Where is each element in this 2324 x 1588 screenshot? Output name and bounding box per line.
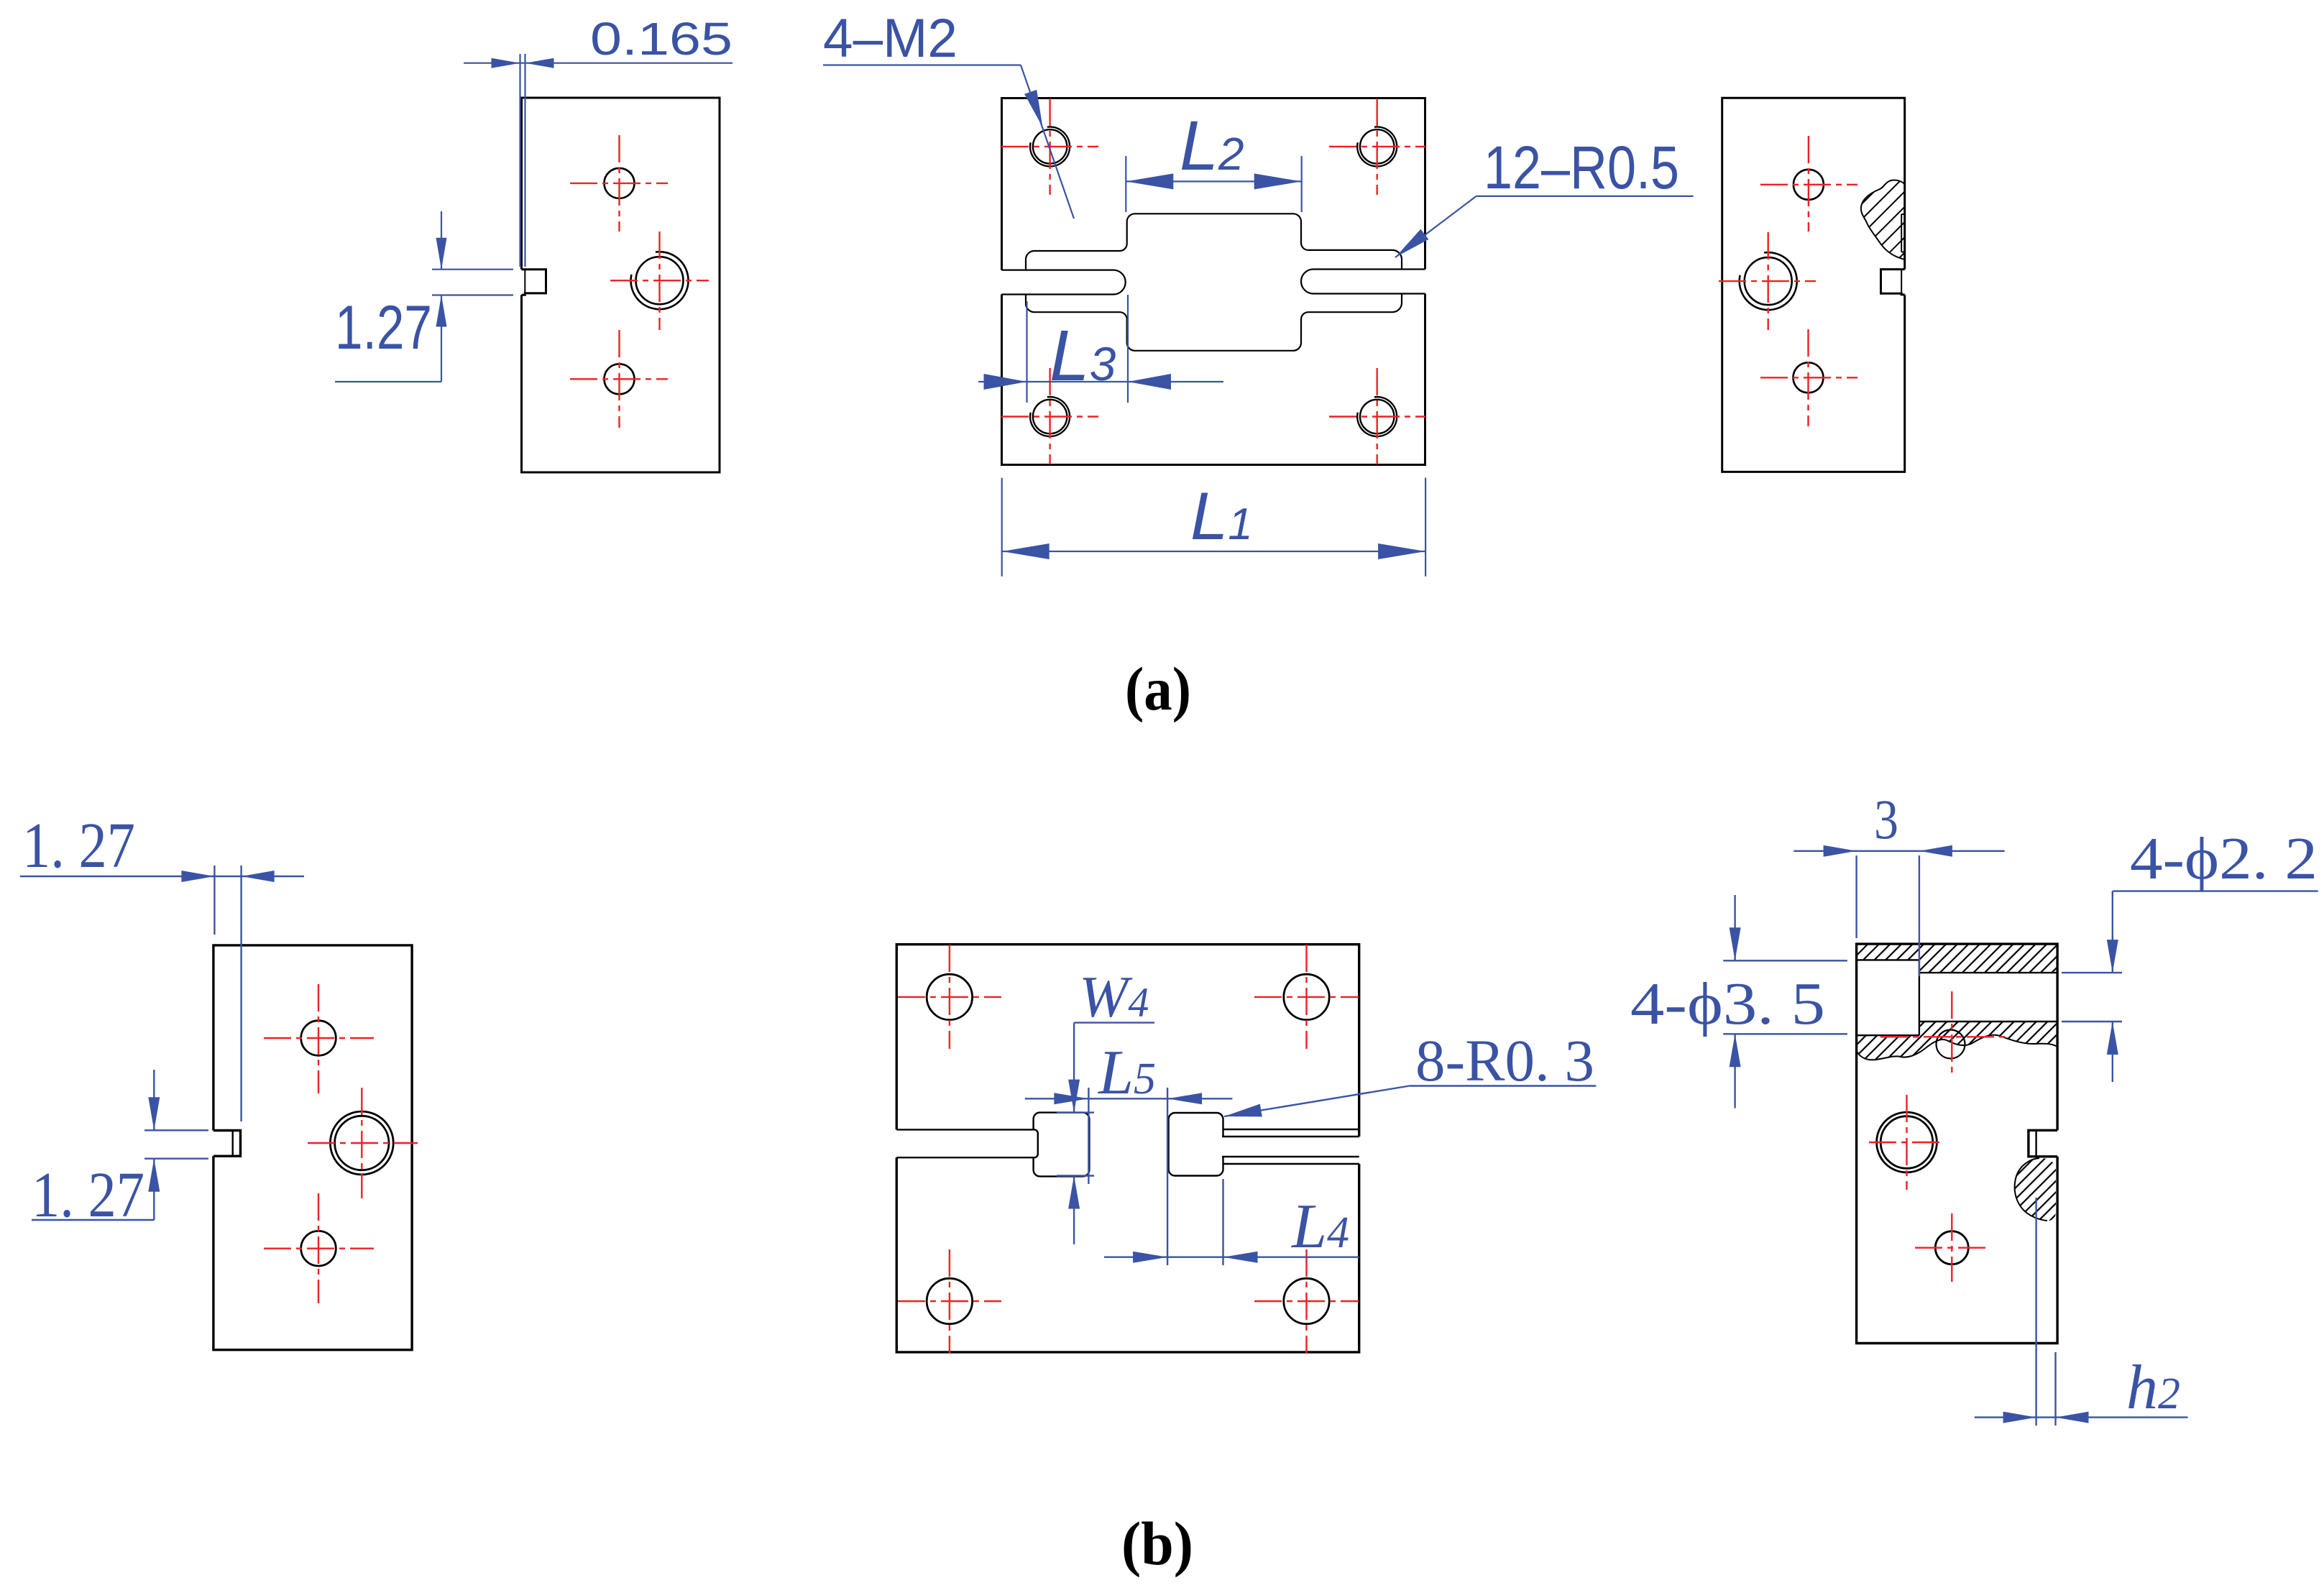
plate A-middle outline [1002, 98, 1425, 465]
svg-text:8-R0. 3: 8-R0. 3 [1415, 1027, 1594, 1093]
left slot cap A-middle [1026, 270, 1126, 295]
centerline B-middle bottom-right [1254, 1300, 1359, 1302]
hole A-right bottom small [1793, 362, 1824, 393]
notch on B-right edge [2029, 1130, 2057, 1157]
centerline B-middle top-left [898, 996, 1001, 998]
centerline B-right top hole [1880, 1036, 2006, 1037]
notch on A-left edge [522, 270, 546, 295]
hole B-right middle large [1880, 1116, 1933, 1169]
centerline B-right middle hole [1869, 1142, 1944, 1143]
left slit B-middle [896, 1129, 1038, 1157]
hole B-left middle large counterbored [335, 1116, 389, 1170]
plate B-left outline [213, 945, 412, 1350]
svg-text:(b): (b) [1121, 1509, 1193, 1578]
hole A-left bottom small [605, 364, 635, 394]
hole A-middle bottom-right M2 [1360, 400, 1394, 433]
centerline A-right bottom hole [1760, 377, 1857, 378]
hole B-right top circle [1937, 1030, 1965, 1059]
right pocket B-middle [1169, 1113, 1223, 1176]
svg-text:1. 27: 1. 27 [22, 810, 135, 881]
centerline A-middle top-left [1001, 146, 1098, 147]
hole B-left top small [301, 1021, 336, 1056]
hatch strip top-right B-right [1919, 944, 2057, 973]
plate B-middle outline [896, 945, 1359, 1352]
centerline B-left middle hole [308, 1142, 418, 1144]
hole B-middle bottom-left [927, 1278, 972, 1323]
counterbore outline B-right [1857, 959, 1919, 960]
hole A-right top small [1793, 170, 1824, 200]
hole B-middle bottom-right [1284, 1278, 1329, 1323]
dimension 1.27 B-left lower lines [32, 1219, 154, 1221]
left pocket B-middle [1034, 1113, 1090, 1177]
flexure cutout A-middle [1002, 214, 1425, 351]
centerline B-middle bottom-left [898, 1300, 1001, 1302]
svg-text:0.165: 0.165 [590, 13, 732, 65]
centerline B-right bottom hole [1915, 1247, 1988, 1248]
plate B-right outline [1857, 944, 2058, 1343]
freehand break line B-right [1857, 1035, 2058, 1060]
hole B-middle top-left [927, 974, 972, 1019]
centerline A-right middle hole [1719, 280, 1816, 282]
centerline B-left bottom hole [264, 1247, 374, 1249]
svg-text:12–R0.5: 12–R0.5 [1484, 134, 1679, 201]
broken-out section blob A-right [1861, 180, 1905, 260]
svg-text:4-ϕ2. 2: 4-ϕ2. 2 [2130, 825, 2318, 892]
centerline A-middle top-right [1329, 146, 1425, 147]
lower hatch with break line B-right [1857, 1022, 2058, 1060]
svg-text:3: 3 [1874, 788, 1898, 850]
through hole lines B-right [1919, 972, 2057, 973]
centerline B-middle top-right [1254, 996, 1359, 998]
svg-text:4-ϕ3. 5: 4-ϕ3. 5 [1630, 970, 1825, 1037]
dimension 1.27 B-left top lines [20, 876, 304, 877]
hole A-middle top-right M2 [1360, 129, 1394, 163]
centerline A-middle bottom-right [1329, 416, 1425, 417]
centerline A-middle bottom-left [1001, 416, 1098, 417]
centerline A-left top hole [570, 183, 668, 184]
svg-text:(a): (a) [1125, 654, 1191, 723]
hole B-left bottom small [301, 1231, 336, 1266]
plate A-left outline [522, 98, 720, 472]
broken-out section blob B-right [2015, 1158, 2056, 1221]
centerline A-left bottom hole [570, 378, 668, 380]
dimension 0.165 lines [464, 63, 732, 64]
centerline A-left middle hole [610, 280, 709, 281]
hatch strip top-left B-right [1857, 944, 1919, 960]
right slot cap A-middle [1301, 270, 1402, 294]
hole A-middle bottom-left M2 [1033, 400, 1067, 433]
notch on A-right edge [1881, 270, 1905, 295]
hole B-right bottom small [1935, 1231, 1968, 1265]
centerline B-left top hole [264, 1037, 374, 1039]
right slit B-middle [1223, 1129, 1359, 1130]
plate A-right outline [1722, 98, 1905, 472]
hole A-right middle large threaded [1745, 257, 1792, 305]
svg-text:1.27: 1.27 [335, 293, 432, 362]
hole A-middle top-left M2 [1033, 129, 1067, 163]
hole A-left top small [605, 168, 635, 198]
recess wall lines A-right [1901, 214, 1902, 252]
hole A-left middle large threaded [636, 257, 684, 304]
centerline A-right top hole [1760, 184, 1857, 185]
hole B-middle top-right [1284, 974, 1329, 1019]
dimension 1.27 A-left lines [335, 381, 441, 382]
svg-text:4–M2: 4–M2 [823, 8, 957, 69]
notch on B-left edge [213, 1131, 241, 1157]
